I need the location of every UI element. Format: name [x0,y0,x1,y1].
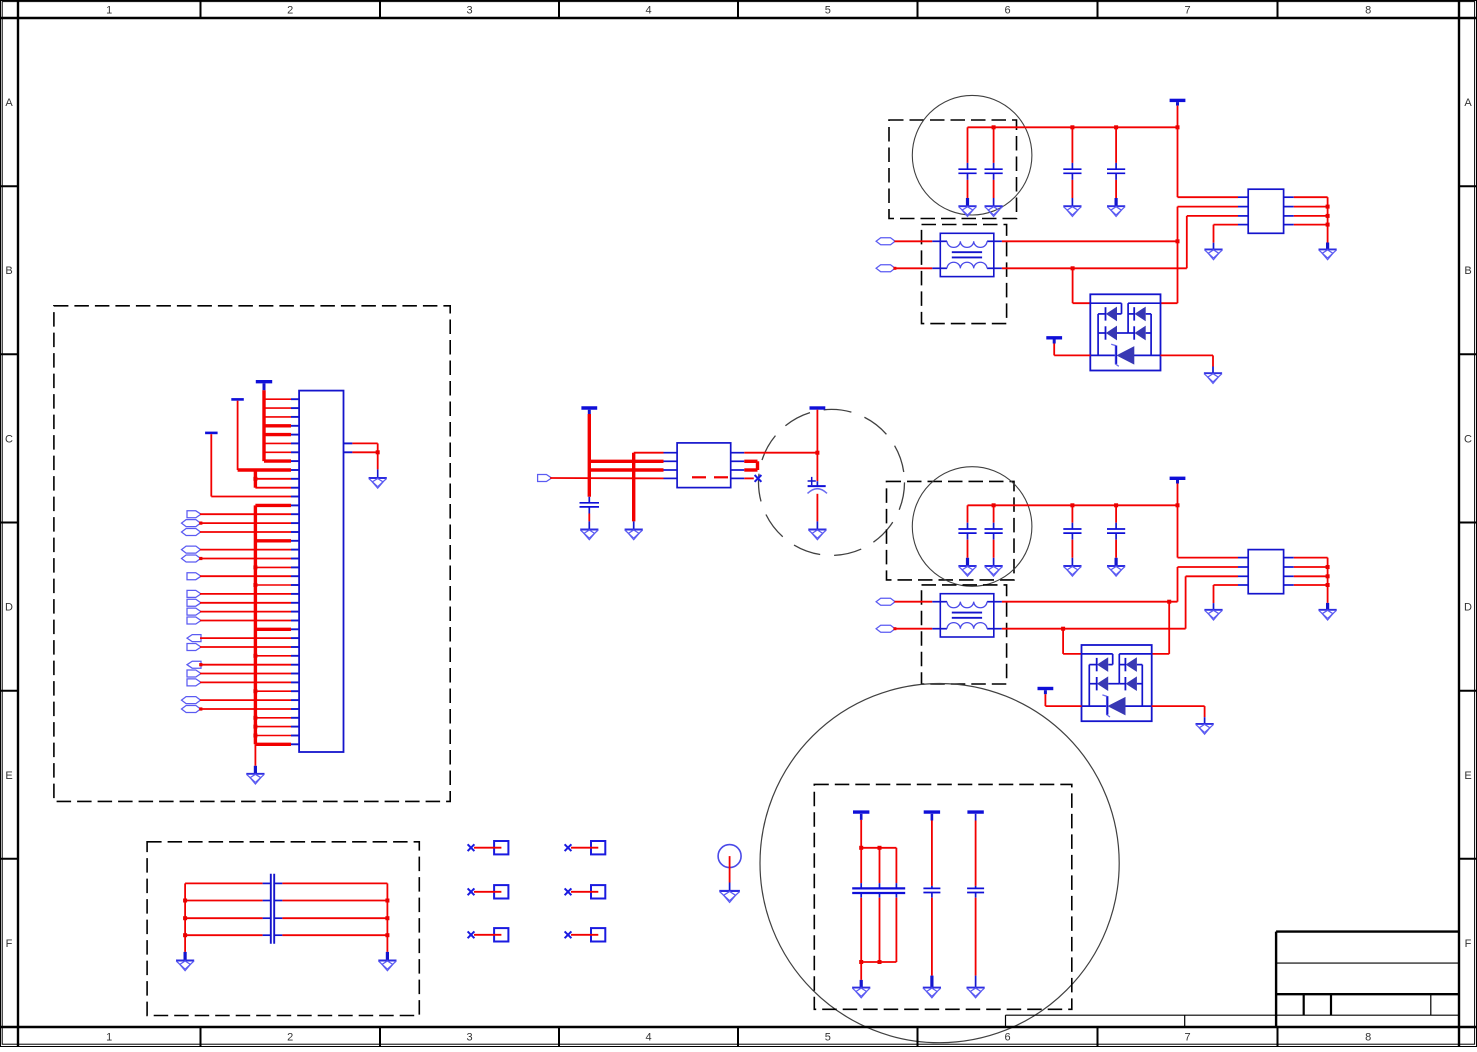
svg-text:3: 3 [466,1032,472,1044]
svg-text:B: B [5,265,12,277]
svg-text:D: D [5,602,13,614]
svg-text:4: 4 [645,1032,651,1044]
svg-text:7: 7 [1184,1032,1190,1044]
svg-text:A: A [5,97,13,109]
svg-text:4: 4 [645,5,651,17]
svg-text:1: 1 [106,1032,112,1044]
svg-text:8: 8 [1365,1032,1371,1044]
svg-text:2: 2 [287,5,293,17]
svg-text:F: F [6,938,13,950]
svg-text:6: 6 [1004,5,1010,17]
svg-text:D: D [1464,602,1472,614]
svg-text:7: 7 [1184,5,1190,17]
svg-text:B: B [1464,265,1471,277]
svg-text:C: C [1464,433,1472,445]
svg-text:F: F [1465,938,1472,950]
svg-text:E: E [5,770,12,782]
svg-text:3: 3 [466,5,472,17]
svg-text:C: C [5,433,13,445]
svg-text:E: E [1464,770,1471,782]
svg-text:A: A [1464,97,1472,109]
svg-text:5: 5 [825,1032,831,1044]
svg-text:8: 8 [1365,5,1371,17]
svg-text:5: 5 [825,5,831,17]
svg-text:2: 2 [287,1032,293,1044]
svg-text:1: 1 [106,5,112,17]
svg-text:6: 6 [1004,1032,1010,1044]
